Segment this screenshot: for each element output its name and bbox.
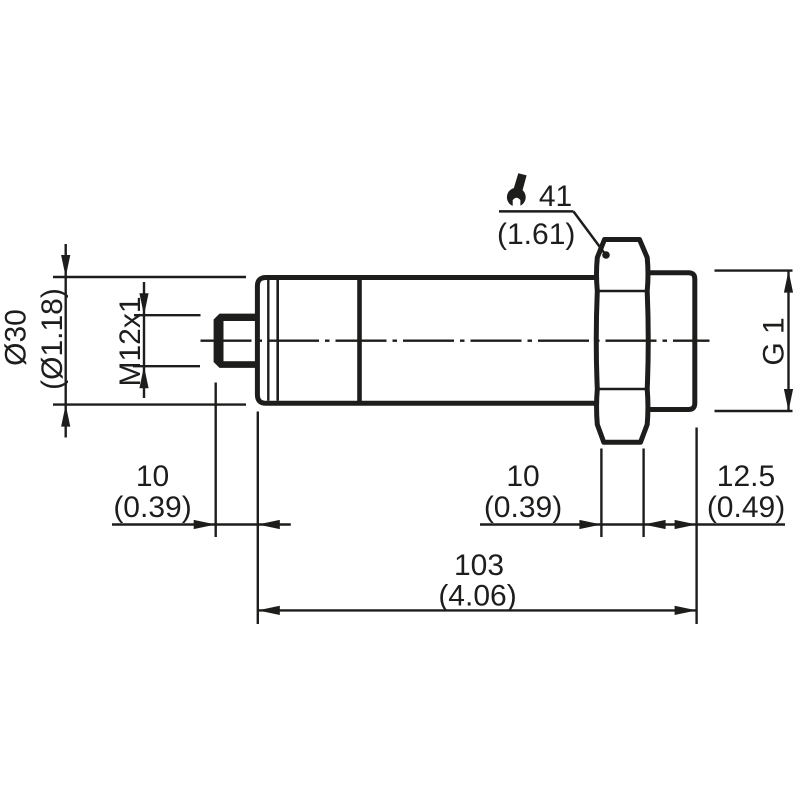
- extension line nut right: [642, 449, 644, 538]
- 103 arrow right: [675, 606, 697, 615]
- middle 10 arrow right: [644, 520, 666, 529]
- dia30 extension line bottom: [53, 403, 246, 405]
- leader dot on nut: [602, 251, 610, 259]
- 12.5 arrow: [675, 520, 697, 529]
- rear cap joint line 1: [267, 280, 269, 401]
- extension line barrel front: [257, 412, 259, 625]
- barrel section divider: [357, 278, 362, 404]
- svg-text:(1.61): (1.61): [497, 218, 575, 251]
- M12x1 arrow bottom: [139, 366, 148, 388]
- G1 arrow bottom: [784, 389, 793, 411]
- wrench label underline: [499, 210, 573, 213]
- svg-text:10: 10: [506, 460, 539, 493]
- M12x1 arrow top: [139, 293, 148, 315]
- svg-text:Ø30: Ø30: [0, 309, 33, 366]
- 103 arrow left: [258, 606, 280, 615]
- svg-text:M12x1: M12x1: [114, 296, 147, 386]
- svg-text:(0.39): (0.39): [484, 491, 562, 524]
- svg-text:12.5: 12.5: [717, 460, 775, 493]
- wrench label leader line: [573, 211, 604, 253]
- G1 dimension line: [787, 271, 789, 411]
- svg-text:(Ø1.18): (Ø1.18): [36, 288, 69, 390]
- centerline: [201, 340, 710, 342]
- M12x1 extension line top: [134, 314, 201, 316]
- rear cap joint line 2: [276, 280, 279, 401]
- M12x1 extension line bottom: [133, 365, 200, 367]
- dia30 extension line top: [53, 276, 246, 278]
- hex nut: [596, 240, 648, 443]
- svg-text:(0.49): (0.49): [707, 491, 785, 524]
- 103 dimension line: [258, 609, 697, 611]
- svg-text:41: 41: [539, 180, 572, 213]
- left 10 arrow left: [194, 520, 216, 529]
- wrench icon: [507, 173, 527, 208]
- svg-text:(0.39): (0.39): [113, 491, 191, 524]
- svg-text:(4.06): (4.06): [438, 580, 516, 613]
- svg-text:10: 10: [136, 460, 169, 493]
- left 10 arrow right: [258, 520, 280, 529]
- G1 threaded section: [642, 273, 695, 410]
- svg-text:G 1: G 1: [758, 317, 791, 365]
- dia30 arrow bottom: [61, 405, 70, 427]
- nut face division lower: [597, 388, 648, 391]
- dia30 arrow top: [61, 255, 70, 277]
- G1 extension line top: [715, 269, 793, 271]
- middle 10 and 12.5 dimension line: [480, 523, 785, 525]
- middle 10 arrow left: [579, 520, 601, 529]
- G1 arrow top: [784, 271, 793, 293]
- extension line body end: [695, 428, 697, 625]
- svg-text:103: 103: [454, 549, 504, 582]
- dia30 dimension line: [64, 244, 66, 438]
- extension line stub face: [214, 383, 216, 538]
- sensor barrel body: [257, 278, 602, 404]
- M12x1 dimension line: [143, 282, 145, 398]
- nut face division upper: [597, 290, 648, 293]
- M12 connector stub: [214, 314, 257, 368]
- extension line nut left: [600, 449, 602, 538]
- left 10 dimension line: [112, 523, 291, 525]
- G1 extension line bottom: [715, 410, 793, 412]
